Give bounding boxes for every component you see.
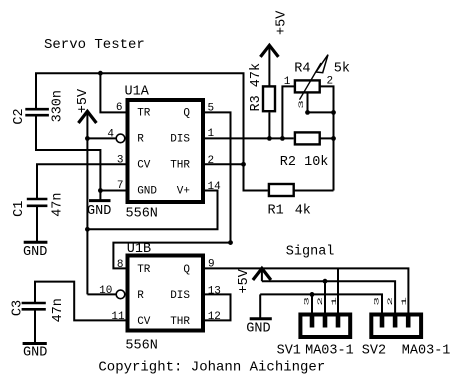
- svg-text:+5V: +5V: [237, 268, 252, 293]
- svg-text:DIS: DIS: [170, 290, 190, 302]
- svg-text:GND: GND: [87, 204, 111, 219]
- svg-text:V+: V+: [177, 186, 190, 198]
- svg-text:6: 6: [116, 102, 123, 114]
- node junction wiper/rail: [331, 110, 336, 115]
- wire R1 right lead to rail: [294, 190, 334, 192]
- power +5V symbol near C2: [78, 111, 96, 138]
- svg-text:MA03-1: MA03-1: [402, 344, 451, 359]
- svg-text:TR: TR: [137, 108, 151, 120]
- node junction THR: [241, 162, 246, 167]
- svg-text:R: R: [137, 134, 144, 146]
- ground GND under C3: [23, 344, 48, 361]
- svg-text:U1B: U1B: [127, 242, 151, 257]
- wire C3 bottom lead: [34, 309, 36, 343]
- ground GND at pin 7: [87, 191, 111, 220]
- svg-text:4: 4: [107, 129, 114, 141]
- node junction +5V/SV1 pin2: [323, 279, 328, 284]
- svg-text:3: 3: [117, 155, 124, 167]
- svg-text:Signal: Signal: [286, 245, 335, 260]
- power +5V symbol above R3: [260, 45, 278, 86]
- node junction R3/DIS: [267, 136, 272, 141]
- svg-text:GND: GND: [137, 186, 157, 198]
- svg-text:14: 14: [208, 181, 222, 193]
- svg-text:1: 1: [401, 297, 408, 306]
- svg-text:Q: Q: [183, 108, 190, 120]
- svg-text:GND: GND: [246, 322, 270, 337]
- svg-text:CV: CV: [137, 316, 151, 328]
- svg-text:2: 2: [208, 155, 215, 167]
- svg-text:GND: GND: [23, 245, 47, 260]
- node junction +5V / pin4: [85, 136, 90, 141]
- wire top rail (C2 top / TR / THR net): [36, 73, 268, 190]
- svg-text:13: 13: [208, 285, 221, 297]
- svg-text:SV1: SV1: [277, 344, 301, 359]
- svg-text:1: 1: [331, 297, 338, 306]
- svg-text:C1: C1: [12, 201, 27, 217]
- svg-text:Q: Q: [183, 264, 190, 276]
- svg-text:GND: GND: [23, 346, 47, 361]
- svg-text:Copyright: Johann Aichinger: Copyright: Johann Aichinger: [98, 360, 325, 376]
- connector SV1 MA03-1: [300, 315, 350, 338]
- wire CV pin3 of U1A to C1: [37, 164, 126, 199]
- wire +5V rail to pin 10 (R) of U1B: [87, 293, 116, 295]
- wire pin 7 (GND) of U1A: [100, 190, 126, 192]
- node junction R2/rail: [331, 136, 336, 141]
- wire pin 4 (R) of U1A: [87, 137, 116, 139]
- svg-text:THR: THR: [170, 160, 190, 172]
- op-amp U1B 556N timer box: [128, 256, 204, 331]
- node junction wiper left: [305, 110, 310, 115]
- svg-text:CV: CV: [137, 160, 151, 172]
- wire R4 pin2 to right rail: [320, 86, 334, 190]
- wire V+ pin14 of U1A to +5V rail: [87, 191, 217, 230]
- svg-text:R2 10k: R2 10k: [280, 155, 329, 170]
- svg-text:3: 3: [303, 297, 310, 306]
- pin 10 inversion circle: [116, 290, 125, 299]
- wire R4 pin1 down to DIS net: [282, 86, 295, 138]
- svg-text:MA03-1: MA03-1: [305, 344, 354, 359]
- wire U1B Q pin9 signal line: [204, 268, 408, 316]
- svg-text:10: 10: [99, 285, 112, 297]
- ground GND under C1: [23, 242, 47, 260]
- svg-text:4k: 4k: [295, 203, 311, 218]
- wire TR tap to pin 6: [100, 73, 126, 112]
- wire SV1 pin3 drop: [311, 294, 313, 316]
- wire SV1 pin2 drop: [324, 281, 326, 316]
- svg-text:7: 7: [117, 180, 124, 192]
- wire C2 bottom to GND junction: [36, 115, 100, 190]
- node junction GND/SV1 pin3: [310, 292, 315, 297]
- resistor R2: [295, 132, 320, 144]
- connector SV2 MA03-1: [371, 315, 421, 338]
- svg-text:C2: C2: [12, 108, 27, 124]
- wire U1B TR pin8 up to Q net: [113, 243, 230, 269]
- svg-text:R: R: [137, 290, 144, 302]
- wire +5V to servo connectors pin2: [262, 281, 395, 316]
- node junction pin7/GND/C2net: [98, 188, 103, 193]
- capacitor C1: [27, 199, 48, 206]
- potentiometer R4: [295, 80, 320, 92]
- wire R4 wiper tap: [308, 92, 334, 112]
- svg-text:3: 3: [373, 297, 380, 306]
- resistor R1: [269, 184, 294, 196]
- svg-text:556N: 556N: [125, 338, 157, 353]
- wire Q pin5 of U1A down to U1B TR net: [204, 112, 231, 242]
- wire GND line to servo connectors pin3: [260, 294, 382, 316]
- power +5V symbol (signal area): [253, 268, 271, 281]
- svg-text:SV2: SV2: [362, 344, 386, 359]
- wire DIS pin1 of U1A to R2: [204, 137, 294, 139]
- wire R2 right lead: [320, 137, 334, 139]
- capacitor C3: [22, 303, 46, 309]
- resistor R3: [263, 86, 275, 111]
- wire +5V rail down: [86, 138, 88, 294]
- svg-text:2: 2: [317, 297, 324, 306]
- svg-text:DIS: DIS: [170, 134, 190, 146]
- svg-text:2: 2: [387, 297, 394, 306]
- svg-text:TR: TR: [137, 264, 151, 276]
- svg-text:330n: 330n: [50, 90, 65, 122]
- node junction R4pin1/DIS: [280, 136, 285, 141]
- svg-text:47n: 47n: [51, 298, 66, 322]
- svg-text:R4: R4: [294, 62, 310, 77]
- wire C1 bottom lead: [36, 206, 38, 242]
- svg-text:+5V: +5V: [275, 10, 290, 35]
- svg-text:556N: 556N: [126, 206, 158, 221]
- svg-text:THR: THR: [170, 316, 190, 328]
- svg-text:C3: C3: [10, 300, 25, 316]
- svg-text:U1A: U1A: [125, 85, 150, 100]
- svg-text:+5V: +5V: [76, 88, 91, 113]
- node junction top rail x=99.5: [98, 71, 103, 76]
- wire THR pin2 stub: [204, 163, 244, 165]
- wire U1B CV pin11 to C3: [35, 282, 126, 321]
- op-amp U1A 556N timer box: [128, 100, 204, 202]
- wire R3 bottom lead: [268, 112, 270, 138]
- capacitor C2: [25, 109, 49, 115]
- ground GND (signal area): [246, 294, 271, 336]
- svg-text:47n: 47n: [51, 192, 66, 216]
- svg-text:3: 3: [298, 100, 305, 109]
- node junction Q/TR: [228, 240, 233, 245]
- pin 4 inversion circle: [116, 134, 125, 143]
- svg-text:Servo Tester: Servo Tester: [44, 37, 145, 53]
- svg-text:R1: R1: [268, 203, 284, 218]
- pot wiper arrow R4: [300, 55, 329, 100]
- wire U1B pins 13-12 tie: [204, 294, 231, 320]
- svg-text:5k: 5k: [334, 62, 350, 77]
- node junction +5V / V+ wire: [85, 227, 90, 232]
- svg-text:R3 47k: R3 47k: [249, 63, 264, 112]
- wire SV1 pin1 drop: [337, 268, 339, 316]
